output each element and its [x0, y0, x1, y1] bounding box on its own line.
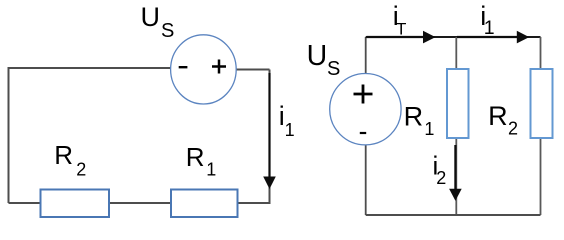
svg-text:2: 2 [436, 168, 446, 188]
wire: right circuit middle branch vertical [455, 37, 457, 215]
svg-text:T: T [396, 20, 406, 39]
svg-text:2: 2 [76, 160, 86, 180]
wire: left circuit top horizontal [8, 67, 171, 69]
svg-text:R: R [186, 142, 205, 172]
resistor R2 (left circuit) [41, 190, 110, 218]
current arrow i1 (left circuit) [263, 73, 276, 189]
wire: right circuit left vertical [365, 37, 367, 215]
wire: left circuit left vertical [8, 68, 10, 203]
current arrow i1 (top wire right) [457, 31, 529, 44]
label U_S (left circuit) [141, 2, 175, 42]
wire: right circuit right vertical [540, 37, 542, 215]
svg-text:2: 2 [508, 118, 518, 138]
svg-text:1: 1 [206, 160, 216, 180]
resistor R2 (right circuit) [531, 69, 553, 138]
wire: left circuit right vertical [269, 70, 271, 204]
label R1 (left circuit) [186, 142, 217, 180]
resistor R1 (left circuit) [171, 190, 238, 218]
wire: left circuit source to right corner [237, 69, 270, 71]
label i1 (left circuit) [279, 101, 295, 140]
wire: left circuit bottom horizontal [9, 202, 271, 204]
svg-text:S: S [161, 20, 174, 42]
current arrow i2 (middle branch) [449, 145, 462, 201]
voltage source U_S (left circuit) [171, 35, 237, 104]
svg-text:R: R [488, 101, 508, 131]
wire: right circuit top horizontal [366, 36, 541, 38]
wire: right circuit bottom horizontal [366, 214, 541, 216]
label R2 (right circuit) [488, 101, 518, 139]
label U_S (right circuit) [307, 40, 341, 80]
label i2 [433, 150, 447, 188]
svg-text:R: R [54, 140, 73, 170]
svg-text:1: 1 [424, 119, 434, 139]
svg-text:R: R [404, 101, 424, 131]
current arrow iT (top wire) [367, 31, 436, 44]
svg-text:1: 1 [484, 17, 495, 39]
voltage source U_S (right circuit) [330, 74, 401, 145]
svg-text:S: S [327, 58, 340, 80]
resistor R1 (right circuit) [447, 69, 469, 138]
label R1 (right circuit) [404, 101, 435, 139]
label i1 (right circuit top) [480, 1, 494, 39]
svg-text:1: 1 [285, 120, 295, 140]
label iT [393, 1, 407, 39]
svg-text:U: U [307, 40, 328, 72]
label R2 (left circuit) [54, 140, 86, 179]
svg-text:U: U [141, 2, 161, 32]
